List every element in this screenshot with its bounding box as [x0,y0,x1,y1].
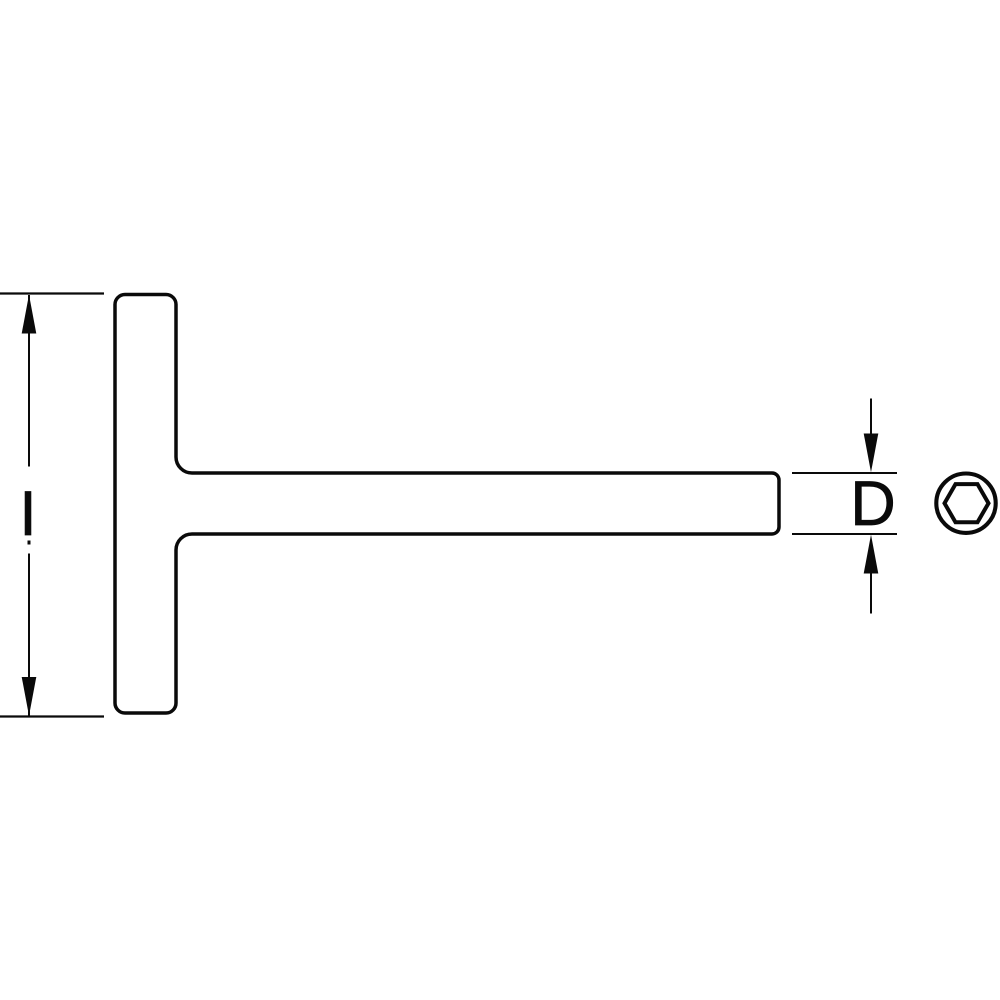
arrowhead up (I top) [22,295,37,334]
arrowhead down (I bottom) [22,677,37,716]
svg-text:D: D [850,469,896,539]
socket end circle [936,474,995,533]
dimension line D upper segment [870,399,872,435]
arrowhead up (D bottom) [864,535,879,574]
extension line top (D dimension) [792,472,897,474]
hex socket hexagon [945,484,989,522]
extension line bottom (I dimension) [0,715,104,717]
dimension line I stray tick [28,541,31,545]
extension line top (I dimension) [0,292,104,294]
dimension line I upper segment [28,295,30,467]
dimension line I lower segment [28,554,30,716]
dimension line D lower segment [870,574,872,614]
svg-text:I: I [19,479,37,549]
extension line bottom (D dimension) [792,533,897,535]
T-handle wrench outline [115,295,779,714]
arrowhead down (D top) [864,434,879,473]
